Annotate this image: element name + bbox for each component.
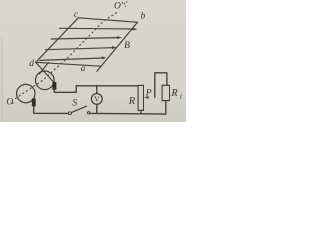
arrowhead B4 xyxy=(102,56,107,59)
brush lower xyxy=(32,98,36,106)
svg-text:b: b xyxy=(141,12,146,22)
svg-text:V: V xyxy=(94,94,100,103)
slider P arrow shaft xyxy=(148,96,155,98)
wire R bottom stub xyxy=(140,110,142,113)
voltmeter V circle xyxy=(91,94,102,105)
wire switch to R1 bottom xyxy=(90,112,166,115)
brush upper xyxy=(52,82,56,90)
svg-text:a: a xyxy=(81,64,86,74)
field line B2 xyxy=(51,38,118,39)
wire upper brush to R top xyxy=(54,86,138,93)
dot near O label xyxy=(12,103,13,104)
paper background xyxy=(0,0,186,122)
resistor R1 box xyxy=(162,85,170,100)
band fold line 2 xyxy=(40,62,49,73)
switch S blade xyxy=(71,106,86,112)
wire V stub bottom xyxy=(96,104,98,113)
svg-text:B: B xyxy=(124,41,130,51)
svg-text:O′: O′ xyxy=(114,2,124,12)
switch S right contact xyxy=(87,112,89,114)
switch S pivot xyxy=(68,112,71,115)
rheostat R box xyxy=(138,85,144,110)
wire lower brush down to bottom-left xyxy=(34,106,68,113)
slider P arrowhead xyxy=(144,96,149,99)
arrowhead B1 xyxy=(133,28,138,31)
field line B4 xyxy=(40,58,103,60)
svg-text:d: d xyxy=(29,59,34,69)
faint scan border left xyxy=(1,38,3,122)
arrowhead B3 xyxy=(112,46,117,49)
band top edge c-b xyxy=(78,18,137,23)
wire slider loop riser xyxy=(155,73,167,98)
svg-text:R: R xyxy=(170,88,177,99)
dashed axis O-O' xyxy=(16,13,118,99)
dot near O' 3 xyxy=(125,6,126,7)
field line B3 xyxy=(45,48,112,50)
roller O' upper circle xyxy=(36,71,55,90)
svg-text:O: O xyxy=(6,98,13,108)
band fold line 1 xyxy=(36,63,54,83)
field line B1 xyxy=(60,27,134,30)
arrowhead B2 xyxy=(117,36,122,39)
band bottom edge d-a xyxy=(36,62,101,66)
wire V stub top xyxy=(96,86,98,94)
svg-text:R: R xyxy=(128,96,136,107)
dot near O' 2 xyxy=(126,1,127,2)
svg-text:P: P xyxy=(145,88,152,98)
wire R1 bottom stub xyxy=(165,101,167,115)
svg-text:1: 1 xyxy=(179,94,182,100)
svg-text:S: S xyxy=(72,99,77,109)
band left rail c-d xyxy=(36,18,79,63)
roller O lower circle xyxy=(17,84,35,102)
dot near O' xyxy=(124,3,125,4)
band right rail b-a xyxy=(97,22,138,71)
